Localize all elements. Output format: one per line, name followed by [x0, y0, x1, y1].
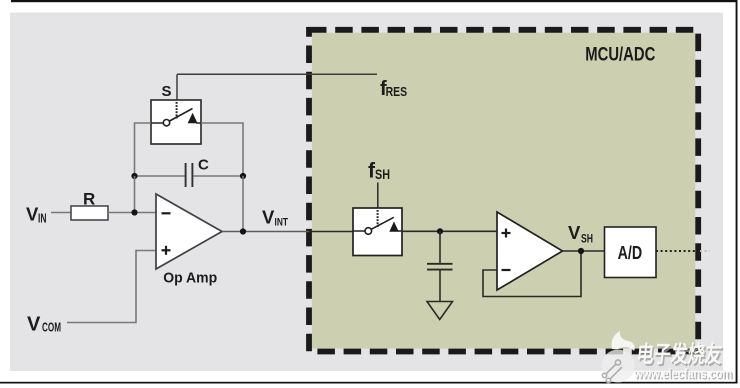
switch SH box [353, 208, 402, 256]
switch S arm [170, 109, 193, 122]
watermark: bottom-right logo circle [602, 331, 635, 383]
node: output junction Vint [240, 228, 246, 234]
wire: S control stub (vertical into switch S) [176, 74, 178, 100]
op-amp minus sign [162, 212, 171, 214]
wire: capacitor C left lead [135, 175, 186, 177]
label f_SH [368, 160, 390, 183]
svg-text:MCU/ADC: MCU/ADC [585, 44, 655, 65]
buffer minus sign [502, 269, 511, 271]
watermark: bottom-right url [633, 365, 733, 383]
wire: op-amp output to MCU border [222, 231, 309, 233]
label V_IN [26, 204, 47, 226]
wire: A/D dotted output [656, 250, 699, 252]
svg-text:V: V [27, 314, 41, 336]
svg-text:Op Amp: Op Amp [163, 270, 217, 287]
wire: left rail down to inverting node [134, 176, 136, 213]
svg-text:V: V [262, 207, 275, 228]
node: cap left junction [131, 173, 137, 179]
resistor R [71, 206, 108, 220]
svg-text:IN: IN [38, 212, 47, 226]
wire: hold capacitor to ground [439, 270, 441, 301]
MCU/ADC dashed border [309, 30, 698, 352]
wire: Vin lead [51, 212, 71, 214]
wire: right rail down to output node [242, 176, 244, 232]
wire: switch S right to right rail [201, 123, 243, 176]
page frame top line [11, 0, 738, 2]
capacitor C plates [186, 163, 193, 187]
op-amp plus sign [162, 246, 171, 255]
switch SH input lead inside box [353, 230, 365, 232]
switch S output lead inside box [196, 122, 201, 124]
ground symbol [427, 302, 453, 320]
node: hold cap junction [437, 228, 443, 234]
buffer plus sign [502, 229, 511, 238]
switch S contact circle [163, 120, 169, 126]
watermark: bottom-right site name [635, 341, 724, 369]
switch S box [151, 100, 201, 144]
wire: f_SH control stub [377, 183, 379, 209]
A/D converter block [605, 227, 657, 278]
hold capacitor plates [427, 264, 453, 270]
svg-text:RES: RES [386, 84, 408, 99]
svg-text:A/D: A/D [618, 242, 643, 263]
switch SH dotted actuator line [377, 210, 379, 227]
wire: Vint into sample switch [309, 231, 353, 233]
svg-text:C: C [198, 157, 209, 174]
switch SH output lead inside box [398, 230, 403, 232]
label V_SH [568, 222, 593, 246]
svg-text:SH: SH [581, 234, 593, 246]
node: Vsh junction [578, 248, 584, 254]
wire: Vcom to non-inverting input [67, 251, 156, 323]
wire: S control to f_RES (horizontal) [177, 73, 377, 75]
switch S throw arrow [188, 113, 198, 123]
op-amp U1 [156, 194, 222, 269]
node: cap right junction [240, 173, 246, 179]
svg-text:S: S [162, 83, 172, 100]
switch SH contact circle [365, 228, 372, 235]
wire: buffer output to A/D [563, 250, 605, 252]
svg-text:COM: COM [42, 320, 61, 335]
wire: sample switch to buffer [402, 230, 497, 232]
label f_RES [380, 78, 407, 100]
MCU/ADC green fill [312, 33, 695, 349]
wire: switch S left to left rail [135, 123, 152, 176]
switch S dotted actuator line [176, 102, 178, 119]
svg-text:www.elecfans.com: www.elecfans.com [633, 365, 732, 381]
wire: buffer feedback loop [483, 251, 581, 297]
buffer amp U2 [497, 212, 563, 290]
wire: capacitor C right lead [193, 175, 243, 177]
label V_INT [262, 207, 288, 229]
svg-text:SH: SH [375, 166, 390, 182]
svg-text:电子发烧友: 电子发烧友 [635, 341, 723, 367]
wire: resistor to op-amp inverting input [108, 212, 156, 214]
wire: junction down to hold capacitor [439, 231, 441, 263]
switch S input lead inside box [151, 122, 163, 124]
svg-text:INT: INT [275, 217, 289, 229]
switch SH throw arrow [389, 222, 399, 232]
svg-text:V: V [568, 222, 581, 243]
wire: faint dotted tail outside box [700, 250, 710, 252]
page frame right line [736, 0, 738, 384]
label V_COM [27, 314, 61, 336]
switch SH arm [371, 217, 393, 229]
page frame bottom line [0, 382, 738, 384]
node: inverting input junction [131, 209, 137, 215]
